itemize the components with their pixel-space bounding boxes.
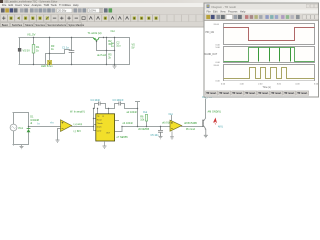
svg-text:Basic: Basic <box>2 23 9 27</box>
svg-text:Process: Process <box>228 10 238 14</box>
svg-text:View: View <box>24 3 30 7</box>
wire R6 down <box>146 121 148 127</box>
wire mid rail to opamp U3 <box>122 126 170 128</box>
junction dots top <box>33 37 34 38</box>
svg-text:Time (s): Time (s) <box>263 87 272 89</box>
transistor T2 <box>202 120 204 127</box>
trace PIN_GN red <box>224 28 315 41</box>
svg-text:555_astable_multivibrator.TSC: 555_astable_multivibrator.TSC - Schemati… <box>5 1 58 4</box>
svg-text:Spice Macros: Spice Macros <box>68 23 84 27</box>
svg-text:20.00: 20.00 <box>214 24 220 26</box>
svg-text:Analysis: Analysis <box>32 3 43 7</box>
capacitor C5 <box>158 127 163 137</box>
svg-text:C3 100nF: C3 100nF <box>113 99 124 102</box>
wire T2 collector <box>205 99 207 118</box>
svg-text:C1 1n: C1 1n <box>62 45 69 49</box>
junction dots bottom <box>28 126 29 127</box>
wire LED branch + jog <box>46 38 71 65</box>
svg-text:a2 100nF: a2 100nF <box>127 111 138 114</box>
capacitor C4 plates <box>98 102 100 106</box>
svg-text:Reset: Reset <box>97 119 102 122</box>
svg-text:10u: 10u <box>116 45 121 48</box>
wire U3 out to T2 <box>182 126 204 128</box>
svg-text:PIN_GN: PIN_GN <box>206 32 215 34</box>
svg-text:20.00: 20.00 <box>214 65 220 67</box>
svg-text:AM GND(V): AM GND(V) <box>208 110 222 113</box>
ground U3 <box>170 131 174 139</box>
svg-text:Switches: Switches <box>12 23 23 27</box>
ground VG1 loop <box>20 145 24 149</box>
svg-text:W: In amp(V): W: In amp(V) <box>70 110 85 113</box>
svg-text:File: File <box>207 10 212 14</box>
IC top stubs <box>98 109 109 114</box>
diagram window frame <box>204 3 319 97</box>
svg-text:Help: Help <box>73 3 79 7</box>
diagram page tabs <box>206 91 218 95</box>
trace NAND_OUT green <box>224 48 315 62</box>
svg-text:Out: Out <box>111 29 115 33</box>
wire VCC tick branch <box>136 102 140 127</box>
svg-text:TR resul.: TR resul. <box>297 92 308 95</box>
svg-text:Edit: Edit <box>9 3 14 7</box>
wire right edge branch <box>129 38 131 65</box>
svg-text:TR resul.: TR resul. <box>271 92 282 95</box>
wire bottom rail <box>19 64 130 66</box>
wire top rail bottom circuit <box>94 108 138 110</box>
svg-text:Meters: Meters <box>25 23 34 27</box>
svg-text:o6 (V)b: o6 (V)b <box>162 121 171 124</box>
svg-text:o8 BC546B: o8 BC546B <box>184 122 197 125</box>
wire VG1 loop <box>13 113 29 146</box>
svg-text:Sources: Sources <box>35 23 45 27</box>
wire T2 emitter + ground <box>204 129 208 138</box>
capacitor C3 plates <box>119 102 121 106</box>
wire left bus of 555 <box>94 109 96 131</box>
svg-text:(+) amp: (+) amp <box>74 123 83 126</box>
svg-text:o4 100nF: o4 100nF <box>123 122 134 125</box>
ground top circuit <box>113 65 117 69</box>
voltage pin marker red <box>213 118 217 124</box>
transistor T1 <box>93 38 99 41</box>
ground C5 <box>159 137 163 139</box>
IC pin stubs right <box>115 121 122 132</box>
svg-text:T&M: T&M <box>44 3 50 7</box>
svg-text:Semiconductors: Semiconductors <box>47 23 66 27</box>
svg-text:(-) INV: (-) INV <box>74 130 82 133</box>
generator VG1 <box>10 124 17 131</box>
capacitor C1 <box>69 50 75 52</box>
svg-text:Thresh: Thresh <box>97 122 103 125</box>
svg-text:Edit: Edit <box>213 10 218 14</box>
wire U1 minus to ground <box>58 129 61 141</box>
svg-text:Disch: Disch <box>97 127 102 129</box>
svg-text:T1 airtrk (st): T1 airtrk (st) <box>88 31 102 35</box>
svg-text:LED 5mm: LED 5mm <box>41 64 53 68</box>
plot2 frame <box>224 47 315 63</box>
wire R2 branch <box>106 38 108 65</box>
node VS_5V top rail <box>19 38 130 65</box>
wire R1 branch <box>33 38 35 65</box>
svg-text:C5 10n: C5 10n <box>151 134 160 137</box>
svg-text:C4 10nF: C4 10nF <box>91 99 101 102</box>
ground U1 <box>56 140 60 142</box>
svg-text:+In: +In <box>50 122 54 125</box>
resistor R1 <box>32 45 35 54</box>
svg-text:5V: 5V <box>132 46 135 49</box>
svg-text:VS_5V: VS_5V <box>27 32 36 36</box>
svg-text:Pin Gnd: Pin Gnd <box>186 128 196 131</box>
svg-text:o7 NE555: o7 NE555 <box>117 136 129 139</box>
IC U2 NE555 <box>96 114 115 141</box>
svg-text:File: File <box>2 3 7 7</box>
resistor R6 <box>145 115 147 122</box>
wire T1 emitter jog <box>97 40 115 51</box>
svg-text:TR resul.: TR resul. <box>232 92 243 95</box>
svg-text:20.00p: 20.00p <box>58 9 67 13</box>
svg-text:TI Utilities: TI Utilities <box>59 3 71 7</box>
op-amp U1 <box>61 120 72 132</box>
wire U1 out to 555 <box>72 126 94 128</box>
svg-text:VS 5V: VS 5V <box>23 48 31 52</box>
svg-text:NAND_OUT: NAND_OUT <box>205 53 218 56</box>
svg-text:TR resul.: TR resul. <box>245 92 256 95</box>
capacitor C3 bridge wires <box>115 104 125 109</box>
svg-text:Tools: Tools <box>51 3 58 7</box>
capacitor C4 bridge wires <box>95 104 106 109</box>
wire C2 branch <box>114 38 116 65</box>
svg-text:TR resul.: TR resul. <box>206 92 217 95</box>
svg-text:TR resul.: TR resul. <box>258 92 269 95</box>
plot3 frame <box>224 65 315 81</box>
svg-text:o5 NE555: o5 NE555 <box>138 128 150 131</box>
trace olive pulses <box>224 68 315 79</box>
wire U3 top stub <box>171 116 173 121</box>
svg-text:VG1: VG1 <box>18 127 24 130</box>
svg-text:4(V): 4(V) <box>218 125 223 128</box>
svg-text:Insert: Insert <box>15 3 22 7</box>
svg-text:TR resul.: TR resul. <box>284 92 295 95</box>
IC bottom stub + ground <box>103 141 107 148</box>
op-amp U3 <box>170 120 182 131</box>
svg-text:View: View <box>220 10 226 14</box>
plot1 frame <box>224 24 315 45</box>
svg-text:Diagram - TR result: Diagram - TR result <box>212 5 237 9</box>
wire C1 branch <box>71 38 73 65</box>
diode D1 <box>27 129 31 132</box>
svg-text:Contr: Contr <box>97 129 102 132</box>
LED D2 <box>47 60 51 65</box>
wire to opamp U1 <box>29 126 61 128</box>
svg-text:de Push: de Push <box>97 54 107 57</box>
svg-text:Help: Help <box>240 10 246 14</box>
svg-text:TR resul.: TR resul. <box>219 92 230 95</box>
svg-text:100%: 100% <box>89 9 96 13</box>
battery VS1 <box>18 48 21 52</box>
svg-text:TR R: TR R <box>97 116 105 118</box>
svg-text:Out: Out <box>169 113 173 116</box>
svg-text:Out: Out <box>143 111 147 114</box>
